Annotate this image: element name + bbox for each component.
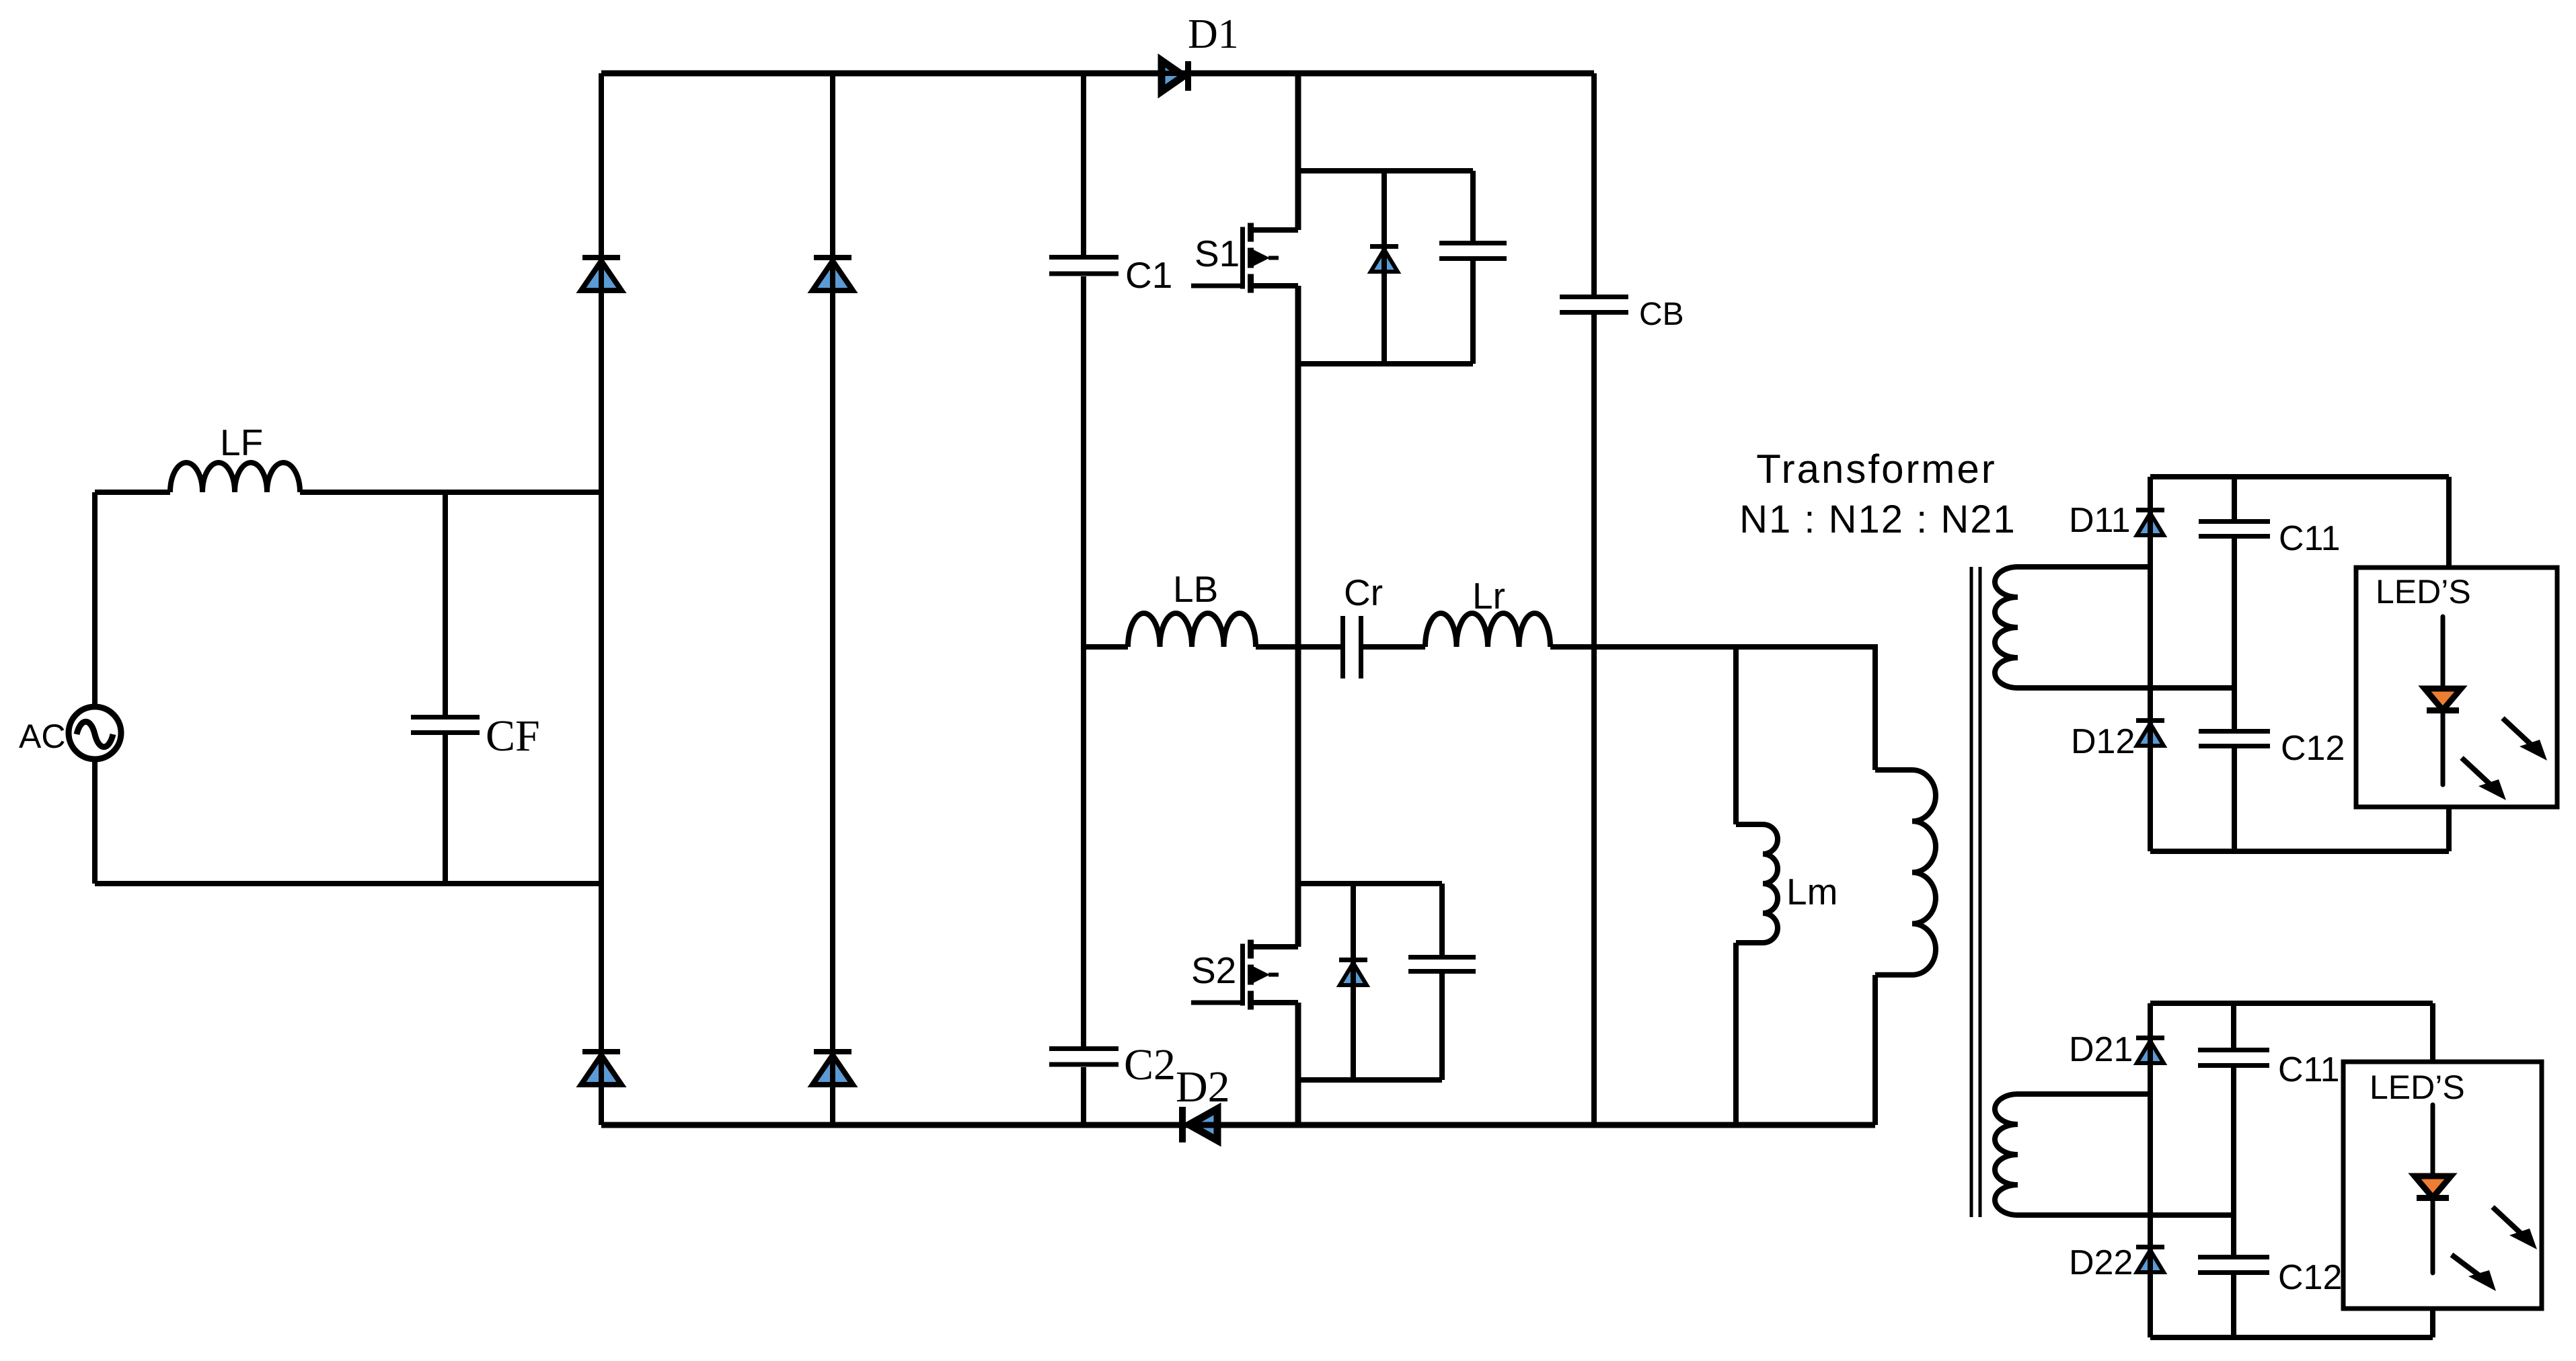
wire output 2 top rail <box>2150 1001 2433 1006</box>
diode S1 body <box>1370 239 1398 279</box>
diode D12 <box>2071 713 2164 761</box>
capacitor C11 <box>2199 519 2341 558</box>
wire output 1 top rail <box>2150 474 2449 479</box>
wire rectifier 1 diode column <box>2148 477 2153 851</box>
svg-text:C1: C1 <box>1125 254 1172 296</box>
diode D22 <box>2069 1239 2164 1282</box>
inductor LF <box>170 422 300 492</box>
svg-text:D22: D22 <box>2069 1243 2133 1282</box>
wire Lm branch upper <box>1733 647 1739 824</box>
wire Lr to transformer primary <box>1550 647 1875 770</box>
diode S2 body <box>1339 952 1367 993</box>
wire filter 1 cap column lower <box>2232 748 2237 851</box>
wire bridge column 1 <box>599 73 604 1125</box>
wire S2 body diode branch <box>1351 884 1356 1080</box>
svg-text:S1: S1 <box>1195 233 1240 274</box>
wire filter 1 cap column upper <box>2232 477 2237 519</box>
svg-text:AC: AC <box>19 717 65 755</box>
wire LF to bridge <box>300 490 601 495</box>
wire CB column lower <box>1591 315 1597 1125</box>
wire CF branch lower <box>443 735 448 884</box>
capacitor Cr <box>1343 572 1384 678</box>
transistor S1 <box>1191 223 1298 293</box>
svg-text:LB: LB <box>1173 568 1218 610</box>
LED light arrow 2b <box>2452 1255 2496 1291</box>
svg-text:C2: C2 <box>1124 1040 1176 1089</box>
wire C1C2 column lower <box>1081 1067 1086 1125</box>
diode D2 <box>1174 1062 1230 1142</box>
diode bridge bottom-right <box>812 1022 853 1112</box>
svg-text:LED’S: LED’S <box>2376 573 2471 611</box>
svg-text:Lr: Lr <box>1472 575 1505 617</box>
svg-text:D21: D21 <box>2069 1030 2133 1069</box>
transformer secondary winding N12 <box>1995 567 2234 688</box>
capacitor C12 lower bank <box>2198 1257 2342 1298</box>
inductor Lm <box>1736 824 1838 943</box>
capacitor S1 snubber <box>1439 243 1507 259</box>
capacitor C12 <box>2199 729 2345 768</box>
diode bridge top-right <box>812 228 853 317</box>
LED load box 2 <box>2343 1062 2542 1309</box>
inductor Lr <box>1425 575 1550 647</box>
wire CB column upper <box>1591 73 1597 295</box>
wire S1 snubber box top <box>1298 168 1473 173</box>
svg-text:C11: C11 <box>2279 519 2341 558</box>
diode D11 <box>2069 501 2164 541</box>
wire C1C2 column middle <box>1081 276 1086 1046</box>
svg-text:Cr: Cr <box>1344 572 1383 613</box>
capacitor CF <box>411 711 540 761</box>
wire bridge column 2 <box>830 73 835 1125</box>
diode D1 <box>1143 11 1239 91</box>
wire LF left segment <box>95 490 170 495</box>
wire AC bottom <box>95 881 601 886</box>
LED symbol 1 <box>2425 617 2461 785</box>
transformer secondary winding N21 <box>1995 1094 2234 1215</box>
diode bridge bottom-left <box>581 1022 621 1112</box>
LED load box 1 <box>2356 568 2557 807</box>
svg-text:C12: C12 <box>2281 729 2345 768</box>
svg-text:CB: CB <box>1639 297 1684 332</box>
wire S2 source column <box>1295 1003 1301 1125</box>
transformer primary winding N1 <box>1875 770 1936 975</box>
AC source V1 <box>19 707 121 759</box>
wire C-column to LB <box>1084 644 1128 650</box>
svg-text:D2: D2 <box>1176 1062 1230 1112</box>
wire C1C2 column upper <box>1081 73 1086 255</box>
wire LB to Cr <box>1256 644 1340 650</box>
wire Cr to Lr <box>1363 644 1425 650</box>
svg-text:D11: D11 <box>2069 501 2131 540</box>
wire filter 1 cap column middle <box>2232 539 2237 729</box>
wire primary to bottom bus <box>1872 975 1878 1125</box>
wire top bus <box>601 71 1594 77</box>
wire LED string 1 feed <box>2446 477 2452 851</box>
wire output 1 bottom rail <box>2150 849 2449 854</box>
wire S2 snubber box right lower <box>1439 974 1445 1080</box>
capacitor CB <box>1560 297 1684 332</box>
wire filter 2 cap column middle <box>2231 1068 2236 1255</box>
inductor LB <box>1128 568 1256 647</box>
wire rectifier 2 diode column <box>2148 1003 2153 1337</box>
wire filter 2 cap column upper <box>2231 1003 2236 1048</box>
svg-text:LED’S: LED’S <box>2370 1068 2465 1106</box>
wire S1 source to S2 drain column <box>1295 286 1301 947</box>
svg-text:LF: LF <box>220 422 263 463</box>
diode bridge top-left <box>581 228 621 317</box>
wire bottom bus <box>601 1122 1875 1128</box>
wire S2 snubber box bottom <box>1298 1077 1442 1083</box>
svg-text:D12: D12 <box>2071 722 2135 761</box>
wire AC top-left vertical <box>92 492 98 884</box>
wire S2 snubber box top <box>1298 881 1442 886</box>
wire S1 drain column <box>1295 73 1301 230</box>
LED light arrow 2a <box>2493 1207 2537 1249</box>
svg-text:C12: C12 <box>2278 1258 2342 1297</box>
svg-text:Transformer: Transformer <box>1756 446 1997 492</box>
LED light arrow 1a <box>2503 718 2547 761</box>
wire Lm branch lower <box>1733 943 1739 1125</box>
wire filter 2 cap column lower <box>2231 1275 2236 1337</box>
diode D21 <box>2069 1030 2164 1069</box>
wire S1 snubber box right upper <box>1470 171 1476 241</box>
capacitor C1 <box>1049 254 1172 296</box>
wire S1 snubber box bottom <box>1298 361 1473 366</box>
svg-text:Lm: Lm <box>1786 871 1838 912</box>
transformer core <box>1971 567 1980 1217</box>
wire S1 body diode branch <box>1381 171 1387 364</box>
LED light arrow 1b <box>2462 758 2506 800</box>
wire output 2 bottom rail <box>2150 1335 2433 1340</box>
capacitor C2 <box>1049 1040 1176 1089</box>
wire CF branch upper <box>443 492 448 715</box>
capacitor C11 lower bank <box>2198 1050 2340 1090</box>
LED symbol 2 <box>2415 1105 2451 1273</box>
svg-text:CF: CF <box>486 711 540 761</box>
svg-text:N1 : N12 : N21: N1 : N12 : N21 <box>1739 498 2016 541</box>
capacitor S2 snubber <box>1408 958 1476 972</box>
transistor S2 <box>1191 940 1298 1010</box>
svg-text:D1: D1 <box>1188 11 1239 57</box>
wire S1 snubber box right lower <box>1470 261 1476 364</box>
svg-text:C11: C11 <box>2278 1050 2340 1089</box>
svg-text:S2: S2 <box>1191 949 1236 991</box>
wire S2 snubber box right upper <box>1439 884 1445 955</box>
wire LED string 2 feed <box>2430 1003 2435 1337</box>
